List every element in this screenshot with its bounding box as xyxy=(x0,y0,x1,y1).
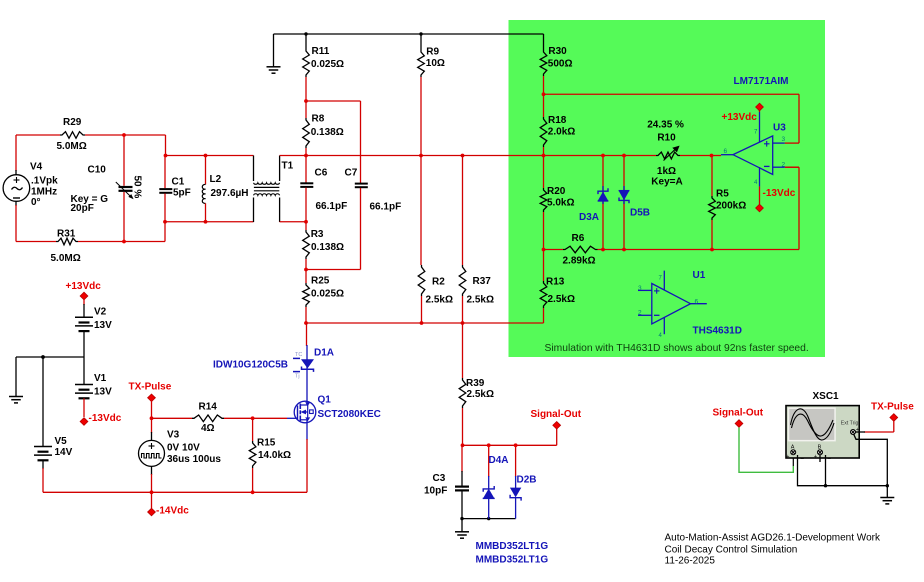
junction R39 bottom xyxy=(461,443,465,447)
label R37 xyxy=(467,276,494,305)
svg-text:Ext Trig: Ext Trig xyxy=(841,421,859,427)
svg-text:66.1pF: 66.1pF xyxy=(316,201,348,212)
label -13Vdc xyxy=(89,413,122,424)
inductor L2 xyxy=(202,156,205,222)
label R5 xyxy=(716,189,746,212)
label R18 xyxy=(548,115,575,138)
label R2 xyxy=(426,276,453,305)
label C3 xyxy=(424,473,447,496)
svg-text:D2B: D2B xyxy=(517,475,537,486)
label R29 xyxy=(57,117,87,152)
svg-text:5.0kΩ: 5.0kΩ xyxy=(547,198,574,209)
svg-text:Key=A: Key=A xyxy=(651,177,682,188)
svg-text:V4: V4 xyxy=(30,161,43,172)
label Signal-Out left xyxy=(531,409,582,420)
label R25 xyxy=(311,276,344,300)
label U1 pin3 xyxy=(638,285,642,292)
ground C3 xyxy=(455,519,469,539)
junction scope ground rail xyxy=(824,484,827,487)
label V1 xyxy=(94,373,112,398)
transformer T1 xyxy=(254,156,280,223)
resistor R37 xyxy=(459,156,466,324)
net Signal-Out left xyxy=(553,422,561,430)
wire top ground rail xyxy=(274,33,544,35)
svg-text:6: 6 xyxy=(724,148,728,155)
svg-text:200kΩ: 200kΩ xyxy=(716,201,746,212)
svg-text:4Ω: 4Ω xyxy=(201,423,215,434)
svg-text:R39: R39 xyxy=(466,378,485,389)
svg-text:TC: TC xyxy=(295,352,302,358)
svg-text:14V: 14V xyxy=(55,447,73,458)
svg-text:R30: R30 xyxy=(548,46,567,57)
svg-text:6: 6 xyxy=(695,299,699,306)
svg-text:MMBD352LT1G: MMBD352LT1G xyxy=(476,541,549,552)
label V5 xyxy=(55,436,73,458)
svg-text:Tj: Tj xyxy=(295,374,300,380)
wire scope A ground xyxy=(798,455,888,486)
resistor R31 xyxy=(16,238,165,245)
svg-text:V1: V1 xyxy=(94,373,107,384)
svg-text:10Ω: 10Ω xyxy=(426,58,445,69)
junction R2 bottom xyxy=(420,321,424,325)
svg-text:IDW10G120C5B: IDW10G120C5B xyxy=(213,360,288,371)
svg-text:0V 10V: 0V 10V xyxy=(167,443,200,454)
svg-text:T1: T1 xyxy=(282,161,294,172)
diode D5B xyxy=(619,156,630,250)
junction C1 bottom corner xyxy=(163,220,167,224)
op-amp U1 xyxy=(638,271,707,339)
label T1 xyxy=(282,161,294,172)
svg-text:0.138Ω: 0.138Ω xyxy=(311,242,344,253)
label Signal-Out right xyxy=(713,408,764,419)
svg-text:R37: R37 xyxy=(473,276,492,287)
svg-text:THS4631D: THS4631D xyxy=(693,326,742,337)
net Signal-Out right xyxy=(735,420,743,428)
svg-text:5.0MΩ: 5.0MΩ xyxy=(57,141,87,152)
junction D3A top xyxy=(601,154,605,158)
svg-text:D5B: D5B xyxy=(630,207,650,218)
svg-text:Q1: Q1 xyxy=(318,394,332,405)
ground top xyxy=(267,34,281,73)
svg-text:C3: C3 xyxy=(433,473,446,484)
label D1A xyxy=(314,348,334,359)
label C7 xyxy=(345,168,402,213)
resistor R3 xyxy=(303,222,310,270)
svg-text:297.6µH: 297.6µH xyxy=(211,188,249,199)
svg-text:3: 3 xyxy=(782,136,786,143)
ground left xyxy=(9,357,23,403)
junction D5B bottom xyxy=(622,248,626,252)
svg-text:C6: C6 xyxy=(315,168,328,179)
label R13 xyxy=(546,277,575,306)
junction C1 top corner xyxy=(164,154,168,158)
svg-text:3: 3 xyxy=(638,285,642,292)
green highlight region xyxy=(509,20,826,357)
svg-text:R2: R2 xyxy=(432,276,445,287)
svg-text:5pF: 5pF xyxy=(173,188,191,199)
svg-text:C7: C7 xyxy=(345,168,358,179)
label R6 xyxy=(563,233,596,267)
label R15 xyxy=(257,438,291,461)
svg-text:XSC1: XSC1 xyxy=(813,391,840,402)
label U3 xyxy=(773,123,786,134)
wire T1 secondary top to C6 xyxy=(280,155,306,157)
junction D2B top xyxy=(514,443,518,447)
svg-text:LM7171AIM: LM7171AIM xyxy=(734,76,789,87)
label V3 xyxy=(167,430,221,465)
svg-text:R10: R10 xyxy=(657,132,676,143)
wire TX-Pulse to scope xyxy=(855,421,893,432)
junction D4A top xyxy=(487,443,491,447)
junction gate node xyxy=(150,416,154,420)
svg-text:Signal-Out: Signal-Out xyxy=(531,409,582,420)
label R39 xyxy=(466,378,494,400)
resistor R6 xyxy=(544,246,800,253)
svg-text:Simulation with TH4631D shows: Simulation with TH4631D shows about 92ns… xyxy=(545,343,809,354)
svg-text:R6: R6 xyxy=(572,233,585,244)
resistor R20 xyxy=(540,156,547,250)
wire T1 secondary bottom to C6 bottom xyxy=(280,221,306,223)
label D5B xyxy=(630,207,650,218)
diode D2B xyxy=(510,445,521,518)
junction R37 bottom xyxy=(461,321,465,325)
label R14 xyxy=(199,402,218,435)
label D2B xyxy=(517,475,537,486)
label V2 xyxy=(94,307,112,331)
svg-text:R31: R31 xyxy=(57,229,76,240)
svg-text:11-26-2025: 11-26-2025 xyxy=(665,556,716,567)
svg-text:0.025Ω: 0.025Ω xyxy=(311,59,344,70)
net -13Vdc U3 xyxy=(756,204,764,212)
label +13Vdc U3 xyxy=(722,112,758,123)
capacitor C1 xyxy=(159,156,172,222)
svg-text:R5: R5 xyxy=(716,189,729,200)
wire drain rail xyxy=(306,322,544,324)
junction R30 bottom xyxy=(542,92,546,96)
net -13Vdc xyxy=(80,418,88,426)
label R30 xyxy=(548,46,573,70)
junction R11 bottom xyxy=(304,99,308,103)
label U1 part xyxy=(693,326,742,337)
wire source xyxy=(306,420,308,493)
net TX-Pulse left xyxy=(148,394,156,402)
wire mid bus xyxy=(306,155,624,157)
svg-text:R15: R15 xyxy=(257,438,276,449)
label U3 pin6 xyxy=(724,148,728,155)
svg-text:R14: R14 xyxy=(199,402,218,413)
svg-text:R8: R8 xyxy=(312,114,325,125)
net +13Vdc xyxy=(80,292,88,300)
junction D5B top xyxy=(622,154,626,158)
label +13Vdc top xyxy=(66,281,102,292)
svg-text:V2: V2 xyxy=(94,307,107,318)
wire green bus xyxy=(624,155,721,157)
battery V2 xyxy=(75,299,93,357)
junction node C6 top xyxy=(304,154,308,158)
junction V3 bottom xyxy=(150,490,154,494)
voltage source V4 xyxy=(3,135,30,242)
svg-text:R25: R25 xyxy=(311,276,330,287)
label Q1 xyxy=(318,394,332,405)
svg-text:C10: C10 xyxy=(88,164,107,175)
wire scope trig ground path xyxy=(854,434,888,486)
svg-text:66.1pF: 66.1pF xyxy=(370,201,402,212)
svg-text:D4A: D4A xyxy=(489,455,509,466)
junction C3 bottom xyxy=(460,517,463,520)
label R31 xyxy=(51,229,81,265)
svg-text:2.5kΩ: 2.5kΩ xyxy=(467,294,494,305)
junction R5 top xyxy=(710,154,714,158)
wire output rail xyxy=(463,444,557,446)
ground scope xyxy=(880,486,894,504)
svg-text:20pF: 20pF xyxy=(71,203,94,214)
label R9 xyxy=(426,46,445,69)
oscilloscope XSC1 xyxy=(786,406,859,460)
junction C6 bottom xyxy=(304,220,308,224)
svg-text:R11: R11 xyxy=(312,46,330,57)
resistor R13 xyxy=(540,250,547,324)
svg-text:MMBD352LT1G: MMBD352LT1G xyxy=(476,554,549,565)
label D4A xyxy=(489,455,509,466)
diode D3A xyxy=(598,156,609,250)
svg-text:R3: R3 xyxy=(311,229,324,240)
label Q1 part xyxy=(318,409,381,420)
label R10 xyxy=(647,120,684,188)
wire R9 to R2 xyxy=(420,156,422,266)
label XSC1 xyxy=(813,391,840,402)
junction scope ground stem xyxy=(886,484,889,487)
junction R18 bottom xyxy=(542,154,546,158)
resistor R14 xyxy=(152,415,288,422)
wire branch to C7 xyxy=(306,101,361,183)
label TX-Pulse left xyxy=(129,382,172,393)
svg-text:+: + xyxy=(786,454,789,460)
junction R5 bottom xyxy=(710,248,714,252)
potentiometer R10 xyxy=(656,146,680,161)
label -13Vdc U3 xyxy=(763,188,796,199)
title block text xyxy=(665,533,881,567)
svg-text:D3A: D3A xyxy=(579,212,599,223)
resistor R29 xyxy=(16,132,166,139)
svg-text:Auto-Mation-Assist AGD26.1-Dev: Auto-Mation-Assist AGD26.1-Development W… xyxy=(665,533,881,544)
svg-text:14.0kΩ: 14.0kΩ xyxy=(258,450,291,461)
capacitor C3 xyxy=(455,445,469,518)
svg-text:-13Vdc: -13Vdc xyxy=(763,188,796,199)
svg-text:+13Vdc: +13Vdc xyxy=(722,112,758,123)
svg-text:2.89kΩ: 2.89kΩ xyxy=(563,255,596,266)
junction R3 bottom xyxy=(304,268,308,272)
svg-text:10pF: 10pF xyxy=(424,485,447,496)
svg-text:C1: C1 xyxy=(172,177,185,188)
label MMBD352LT1G 2 xyxy=(476,554,549,565)
wire Signal-Out stub xyxy=(556,429,558,445)
svg-text:D1A: D1A xyxy=(314,348,334,359)
junction rail R9 xyxy=(419,32,422,35)
svg-text:36us 100us: 36us 100us xyxy=(167,454,221,465)
resistor R2 xyxy=(418,265,425,323)
junction C10 bottom xyxy=(122,240,126,244)
wire feedback bottom xyxy=(785,167,799,249)
label R8 xyxy=(311,114,344,139)
svg-text:R29: R29 xyxy=(63,117,82,128)
resistor R18 xyxy=(540,94,547,155)
junction R25 bottom xyxy=(304,321,308,325)
wire feedback top rail xyxy=(544,94,800,143)
net -14Vdc xyxy=(148,508,156,516)
junction D4A bottom xyxy=(487,517,490,520)
svg-text:B: B xyxy=(818,444,822,450)
svg-text:R13: R13 xyxy=(546,277,565,288)
wire mid rail xyxy=(16,356,84,358)
junction L2 top xyxy=(204,154,208,158)
label L2 xyxy=(210,174,249,199)
label C10 xyxy=(71,164,109,213)
svg-text:2: 2 xyxy=(638,310,642,317)
resistor R11 xyxy=(303,34,310,101)
junction R15 top xyxy=(251,416,255,420)
junction R9 mid rail xyxy=(419,154,423,158)
svg-text:TX-Pulse: TX-Pulse xyxy=(871,402,914,413)
label U3 part xyxy=(734,76,789,87)
svg-text:A: A xyxy=(791,444,795,450)
svg-text:2.5kΩ: 2.5kΩ xyxy=(426,294,453,305)
svg-text:0.138Ω: 0.138Ω xyxy=(311,127,344,138)
label D1A part xyxy=(213,360,288,371)
svg-text:0.025Ω: 0.025Ω xyxy=(311,289,344,300)
net +13Vdc U3 xyxy=(756,103,764,111)
wire drain xyxy=(306,401,308,405)
svg-text:13V: 13V xyxy=(94,387,112,398)
label U3 pin2 xyxy=(782,162,786,169)
svg-text:SCT2080KEC: SCT2080KEC xyxy=(318,409,381,420)
wire bottom supply rail xyxy=(43,491,307,493)
junction L2 bottom xyxy=(204,220,208,224)
svg-text:U1: U1 xyxy=(693,270,706,281)
wire drain column xyxy=(306,323,308,346)
svg-text:-14Vdc: -14Vdc xyxy=(156,506,189,517)
label R20 xyxy=(547,186,574,209)
junction V5 column xyxy=(41,355,45,359)
svg-text:TX-Pulse: TX-Pulse xyxy=(129,382,172,393)
label TX-Pulse right xyxy=(871,402,914,413)
svg-text:500Ω: 500Ω xyxy=(548,58,573,69)
svg-text:5.0MΩ: 5.0MΩ xyxy=(51,253,81,264)
svg-text:-13Vdc: -13Vdc xyxy=(89,413,122,424)
svg-text:V3: V3 xyxy=(167,430,180,441)
junction R15 bottom xyxy=(251,490,255,494)
resistor R15 xyxy=(249,418,256,492)
resistor R9 xyxy=(418,34,425,156)
resistor R25 xyxy=(303,270,310,324)
wire -14Vdc stub xyxy=(151,492,153,508)
svg-text:2.0kΩ: 2.0kΩ xyxy=(548,127,575,138)
op-amp U3 xyxy=(721,104,799,186)
wire R29 rail to C1 column xyxy=(165,135,167,156)
label V4 xyxy=(30,161,58,207)
junction R20 bottom xyxy=(542,248,546,252)
label C10 percent xyxy=(132,176,143,199)
svg-text:50 %: 50 % xyxy=(132,176,143,199)
wire tank top rail xyxy=(166,155,254,157)
svg-text:+: + xyxy=(814,454,817,460)
label R3 xyxy=(311,229,344,253)
diode D4A xyxy=(483,445,495,518)
resistor R30 xyxy=(540,34,547,94)
wire U3 vee stub xyxy=(759,186,761,204)
junction D3A bottom xyxy=(601,248,605,252)
capacitor C6 xyxy=(300,156,313,222)
label C6 xyxy=(315,168,348,213)
resistor R5 xyxy=(709,156,716,250)
wire scope B ground xyxy=(820,455,826,486)
svg-text:13V: 13V xyxy=(94,320,112,331)
wire C7 bottom rail xyxy=(306,269,361,271)
label U3 pin3 xyxy=(782,136,786,143)
svg-text:2.5kΩ: 2.5kΩ xyxy=(467,389,494,400)
pulse source V3 xyxy=(139,418,165,492)
svg-text:L2: L2 xyxy=(210,174,222,185)
svg-text:24.35 %: 24.35 % xyxy=(647,120,684,131)
svg-text:2: 2 xyxy=(782,162,786,169)
battery V1 xyxy=(75,357,93,417)
wire tank bottom rail xyxy=(165,222,254,242)
note simulation speed xyxy=(545,343,809,354)
junction R37 top xyxy=(461,154,465,158)
svg-text:R9: R9 xyxy=(426,46,439,57)
label U1 pin2 xyxy=(638,310,642,317)
svg-text:1kΩ: 1kΩ xyxy=(657,166,676,177)
label D3A xyxy=(579,212,599,223)
label MMBD352LT1G 1 xyxy=(476,541,549,552)
battery V5 xyxy=(34,357,52,492)
svg-text:0°: 0° xyxy=(31,197,41,208)
resistor R39 xyxy=(459,323,466,445)
junction C10 top xyxy=(122,133,126,137)
label R11 xyxy=(311,46,344,70)
capacitor C7 xyxy=(355,184,368,270)
label U1 pin6 xyxy=(695,299,699,306)
svg-text:+13Vdc: +13Vdc xyxy=(66,281,102,292)
svg-text:Signal-Out: Signal-Out xyxy=(713,408,764,419)
svg-text:R18: R18 xyxy=(548,115,567,126)
svg-text:Coil Decay Control Simulation: Coil Decay Control Simulation xyxy=(665,544,798,555)
svg-text:V5: V5 xyxy=(55,436,68,447)
label U1 xyxy=(693,270,706,281)
svg-text:2.5kΩ: 2.5kΩ xyxy=(548,294,575,305)
variable capacitor C10 xyxy=(116,135,134,242)
wire clamp bottom rail xyxy=(462,518,516,520)
label -14Vdc xyxy=(156,506,189,517)
junction rail R11 xyxy=(304,32,307,35)
wire TX-Pulse stub xyxy=(151,401,153,419)
diode D1A xyxy=(293,345,314,401)
resistor R8 xyxy=(303,101,310,156)
net TX-Pulse right xyxy=(890,414,898,422)
label C1 xyxy=(172,177,191,199)
wire scope input green xyxy=(739,428,793,473)
svg-text:.1Vpk: .1Vpk xyxy=(31,176,58,187)
transistor Q1 xyxy=(287,401,316,423)
svg-text:R20: R20 xyxy=(547,186,566,197)
svg-text:U3: U3 xyxy=(773,123,786,134)
